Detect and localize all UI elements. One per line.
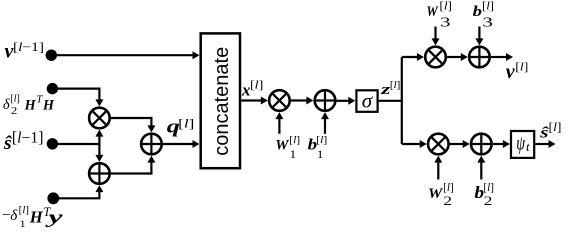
svg-text:1: 1	[317, 149, 324, 161]
svg-text:σ: σ	[362, 89, 374, 113]
svg-text:2: 2	[484, 194, 493, 208]
svg-text:δ: δ	[3, 97, 10, 113]
svg-text:[l]: [l]	[316, 134, 327, 146]
svg-text:3: 3	[440, 14, 451, 29]
svg-text:v: v	[506, 61, 516, 83]
svg-text:ψ: ψ	[516, 132, 525, 154]
svg-text:δ: δ	[10, 207, 18, 224]
svg-text:[l−1]: [l−1]	[13, 40, 44, 54]
svg-text:W: W	[428, 185, 444, 202]
svg-text:2: 2	[11, 106, 17, 117]
svg-text:[l]: [l]	[549, 120, 562, 134]
svg-text:[l]: [l]	[482, 1, 494, 13]
svg-text:W: W	[275, 137, 290, 154]
svg-text:H: H	[24, 98, 37, 114]
svg-text:t: t	[526, 139, 530, 154]
svg-text:W: W	[426, 4, 439, 20]
svg-text:[l]: [l]	[19, 205, 29, 216]
svg-text:[l]: [l]	[289, 134, 300, 146]
svg-text:[l]: [l]	[443, 182, 454, 194]
svg-text:3: 3	[482, 14, 493, 29]
svg-text:[l]: [l]	[178, 116, 194, 130]
svg-text:1: 1	[290, 149, 297, 161]
svg-text:[l]: [l]	[483, 182, 494, 194]
svg-text:ŝ: ŝ	[3, 133, 12, 154]
svg-text:[l−1]: [l−1]	[12, 130, 44, 147]
svg-text:H: H	[29, 208, 44, 227]
svg-text:2: 2	[443, 194, 452, 208]
svg-text:[l]: [l]	[10, 94, 20, 105]
svg-text:y: y	[45, 207, 64, 227]
svg-text:[l]: [l]	[390, 80, 401, 91]
svg-text:H: H	[42, 98, 55, 114]
svg-text:[l]: [l]	[439, 1, 452, 13]
svg-text:1: 1	[20, 219, 26, 230]
svg-text:[l]: [l]	[515, 62, 528, 74]
svg-text:concatenate: concatenate	[211, 47, 233, 156]
svg-text:[l]: [l]	[250, 78, 263, 92]
